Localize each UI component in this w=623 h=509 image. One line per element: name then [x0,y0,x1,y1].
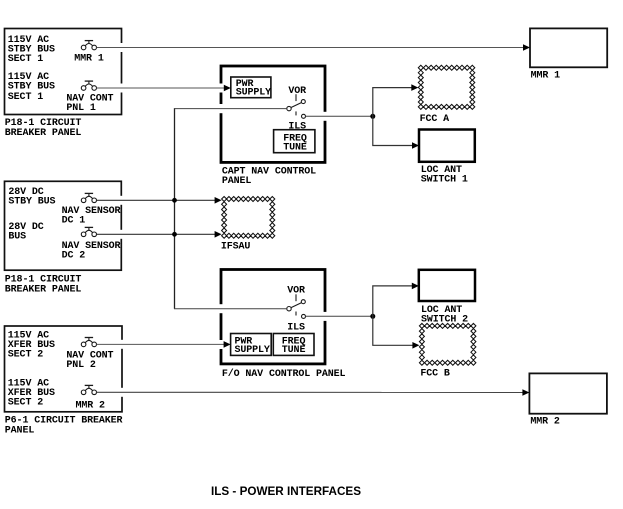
wire: CAPT junction up to FCC A [373,84,419,116]
wire: CAPT junction down to LOC ANT SWITCH 1 [373,116,419,149]
CAPT FREQ TUNE box [274,130,315,154]
label CAPT NAV CONTROL PANEL [222,167,316,188]
svg-text:F/O NAV CONTROL PANEL: F/O NAV CONTROL PANEL [222,368,346,380]
circuit breaker panel P6-1 box [5,326,125,412]
svg-text:SUPPLY: SUPPLY [236,88,271,99]
svg-text:MMR 2: MMR 2 [76,400,106,411]
circuit breaker NAV CONT PNL 2 [81,338,96,347]
FCC A box (hatched border) [418,65,475,109]
circuit breaker NAV SENSOR DC 2 [81,227,96,236]
svg-text:SECT 2: SECT 2 [8,349,43,360]
svg-text:STBY BUS: STBY BUS [8,82,55,93]
breaker label NAV CONT PNL 1 [66,93,113,114]
wire: feed to F/O switch common [174,308,287,310]
MMR 2 LRU box [529,373,607,413]
svg-text:ILS: ILS [288,121,306,132]
svg-text:IFSAU: IFSAU [221,241,251,252]
svg-text:MMR 2: MMR 2 [530,417,560,428]
svg-text:BREAKER PANEL: BREAKER PANEL [5,284,82,295]
wire: vertical feed bus [174,108,176,309]
F/O FREQ TUNE box [273,334,314,357]
svg-text:PANEL: PANEL [222,176,252,187]
svg-text:ILS - POWER INTERFACES: ILS - POWER INTERFACES [211,485,361,498]
label LOC ANT SWITCH 1 [421,165,468,185]
circuit breaker NAV SENSOR DC 1 [81,193,96,202]
svg-text:BREAKER PANEL: BREAKER PANEL [5,128,82,139]
label P18-1 circuit breaker panel (upper) [5,118,82,139]
svg-text:ILS: ILS [287,323,305,334]
circuit breaker NAV CONT PNL 1 [81,81,96,90]
LOC ANT SWITCH 2 box [419,270,475,301]
FCC B box (hatched border) [419,323,476,365]
circuit breaker MMR 2 [81,385,96,394]
circuit breaker panel P18-1 upper box [5,29,125,115]
wire: MMR 2 breaker to MMR 2 [97,389,530,396]
svg-text:DC 1: DC 1 [62,215,86,226]
breaker label NAV SENSOR DC 1 [62,206,121,227]
wire: NAV SENSOR DC 1 to IFSAU [97,197,222,204]
svg-text:TUNE: TUNE [282,345,306,356]
wire: NAV CONT PNL 1 breaker to CAPT PWR SUPPLY [97,85,231,92]
svg-text:SUPPLY: SUPPLY [235,345,270,356]
svg-text:FCC B: FCC B [420,368,450,379]
svg-text:DC 2: DC 2 [62,250,86,261]
wire: feed to CAPT switch common [174,108,287,110]
circuit breaker panel P18-1 lower box [5,181,124,270]
IFSAU box (hatched border) [222,197,275,239]
svg-text:STBY BUS: STBY BUS [8,197,55,208]
label LOC ANT SWITCH 2 [421,305,468,325]
wire: CAPT ILS contact to junction [306,115,373,117]
MMR 1 LRU box [530,28,607,67]
F/O NAV control panel U2 box [219,270,328,364]
wire: MMR 1 breaker to MMR 1 [97,44,531,51]
wire: NAV SENSOR DC 2 to IFSAU [97,231,222,238]
wire: F/O junction up to LOC ANT SWITCH 2 [373,283,419,317]
svg-text:SECT 1: SECT 1 [8,92,43,103]
LOC ANT SWITCH 1 box [419,130,475,162]
label P6-1 circuit breaker panel [5,416,123,437]
breaker label NAV SENSOR DC 2 [62,241,121,262]
node: CAPT output junction [370,114,375,119]
breaker label NAV CONT PNL 2 [66,350,113,371]
circuit breaker MMR 1 [81,41,96,50]
wire: F/O ILS contact to junction [306,315,373,317]
node: junction DC2 / feed bus [172,232,177,237]
svg-text:PANEL: PANEL [5,426,35,437]
CAPT NAV control panel U1 box [219,66,328,162]
svg-text:PNL 1: PNL 1 [66,103,96,114]
svg-text:BUS: BUS [8,231,26,242]
wire: NAV CONT PNL 2 breaker to F/O PWR SUPPLY [97,341,231,348]
svg-text:SECT 1: SECT 1 [8,54,43,65]
svg-text:SECT 2: SECT 2 [8,398,43,409]
CAPT VOR/ILS selector switch S1 [287,94,306,118]
svg-text:MMR 1: MMR 1 [74,54,104,65]
svg-text:TUNE: TUNE [283,142,307,153]
svg-text:SWITCH 2: SWITCH 2 [421,314,468,325]
svg-text:VOR: VOR [288,86,306,97]
node: junction DC1 / feed bus [172,198,177,203]
node: F/O output junction [370,314,375,319]
CAPT PWR SUPPLY box [231,77,271,99]
wire: F/O junction down to FCC B [373,316,420,348]
F/O PWR SUPPLY box [231,334,272,357]
svg-text:PNL 2: PNL 2 [66,360,96,371]
svg-text:SWITCH 1: SWITCH 1 [421,174,468,185]
label P18-1 circuit breaker panel (lower) [5,275,82,296]
svg-text:FCC A: FCC A [420,114,450,125]
svg-text:MMR 1: MMR 1 [531,71,561,82]
F/O VOR/ILS selector switch S2 [287,294,306,318]
